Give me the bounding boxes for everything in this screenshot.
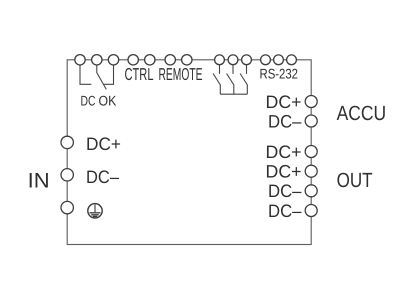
svg-text:ACCU: ACCU <box>337 102 387 125</box>
terminal CTRL 2 <box>145 55 155 65</box>
terminal OUT DC- 1 <box>305 185 317 197</box>
terminal DC OK 3 <box>108 55 118 65</box>
terminal DC OK 1 <box>75 55 85 65</box>
svg-text:IN: IN <box>28 169 50 192</box>
wire switch common bar <box>220 93 247 95</box>
terminal S3 <box>242 55 252 65</box>
terminal ACCU DC- <box>305 115 317 127</box>
svg-text:REMOTE: REMOTE <box>159 64 203 84</box>
svg-text:DC–: DC– <box>268 201 302 221</box>
terminal DC OK 2 <box>92 55 102 65</box>
terminal RS-232 2 <box>274 55 284 65</box>
switch S1 <box>213 65 221 95</box>
wire outer loop <box>67 60 311 245</box>
contact DC OK: right NO bracket <box>104 65 114 84</box>
svg-text:RS-232: RS-232 <box>260 66 299 82</box>
terminal IN DC- <box>61 169 73 181</box>
switch S2 <box>227 65 235 95</box>
svg-text:DC: DC <box>81 93 96 109</box>
terminal OUT DC- 2 <box>305 205 317 217</box>
ground PE symbol <box>88 204 102 218</box>
terminal S2 <box>228 55 238 65</box>
svg-text:DC–: DC– <box>86 167 119 187</box>
terminal RS-232 3 <box>287 55 297 65</box>
svg-text:DC+: DC+ <box>86 134 121 154</box>
terminal REMOTE 1 <box>165 55 175 65</box>
contact DC OK (SPDT): left NC bracket <box>80 65 91 84</box>
terminal ACCU DC+ <box>305 96 317 108</box>
svg-text:OK: OK <box>99 93 117 109</box>
terminal RS-232 1 <box>261 55 271 65</box>
terminal OUT DC+ 1 <box>305 146 317 158</box>
terminal REMOTE 2 <box>182 55 192 65</box>
terminal OUT DC+ 2 <box>305 165 317 177</box>
svg-text:DC+: DC+ <box>266 142 302 162</box>
contact DC OK: common arm <box>97 65 107 89</box>
svg-text:CTRL: CTRL <box>125 64 154 84</box>
switch S3 <box>240 65 248 95</box>
terminal IN PE <box>61 201 73 213</box>
terminal S1 <box>215 55 225 65</box>
svg-text:DC+: DC+ <box>266 92 302 112</box>
svg-text:DC–: DC– <box>268 111 302 131</box>
terminal CTRL 1 <box>128 55 138 65</box>
svg-text:DC+: DC+ <box>266 162 302 182</box>
svg-text:DC–: DC– <box>268 181 302 201</box>
svg-text:OUT: OUT <box>337 169 373 192</box>
terminal IN DC+ <box>61 136 73 148</box>
